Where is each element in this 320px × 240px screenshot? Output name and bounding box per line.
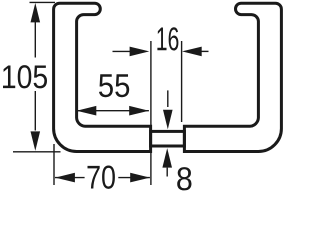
- 8 bottom (points up): [162, 148, 172, 168]
- 105 up: [31, 3, 41, 23]
- 70 left: [55, 173, 75, 183]
- 8 top (points down): [163, 110, 173, 130]
- 105 dimension line segments: [34, 22, 36, 58]
- 70 dimension line segments: [55, 177, 85, 179]
- left vertical extension (70 dim, grip outer): [53, 144, 55, 185]
- left handle outline: [54, 3, 151, 151]
- 16 left (points right): [130, 47, 150, 57]
- 55 dimension line: [76, 110, 149, 112]
- 8 dim top shaft: [167, 90, 169, 107]
- label 55: [99, 74, 129, 97]
- 16 right (points left): [182, 47, 202, 57]
- 55 right: [129, 106, 149, 116]
- label 8: [177, 167, 191, 190]
- 105 bottom extension: [13, 151, 61, 153]
- label 16: [157, 27, 178, 50]
- 105 down: [31, 131, 41, 151]
- label 70: [88, 166, 115, 189]
- thin dimension / extension lines: [13, 2, 209, 185]
- right handle outline: [184, 3, 281, 151]
- 16 dim left shaft: [113, 50, 132, 52]
- 55 left: [77, 106, 97, 116]
- label 105: [3, 65, 47, 88]
- ext line glass right: [181, 41, 183, 122]
- center gasket piece: [151, 131, 185, 146]
- ext line glass left: [150, 41, 152, 185]
- arrowheads: [31, 3, 202, 183]
- 16 dim right shaft: [201, 50, 209, 52]
- 8 dim bottom shaft: [166, 168, 168, 177]
- 105 top extension: [30, 1, 56, 3]
- 70 right: [130, 173, 150, 183]
